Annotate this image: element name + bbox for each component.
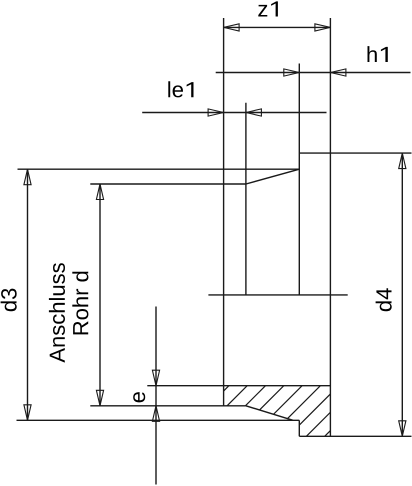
wire h1 dimension line	[216, 72, 411, 74]
label Rohr d	[72, 272, 88, 335]
wire z1 dimension line	[224, 26, 331, 28]
wire collar face edge / h1 extension (V3)	[298, 64, 300, 295]
wire left face extension z1 (V1)	[223, 18, 225, 406]
arrow d4 top	[399, 153, 406, 169]
wire insertion depth edge / le1 extension (V4)	[245, 103, 247, 295]
arrow e bottom	[152, 406, 159, 422]
wire d3 dimension line	[27, 169, 29, 420]
arrow d3 bottom	[24, 405, 31, 421]
wire bottom chamfer	[246, 406, 293, 421]
arrow Rohr d bottom	[96, 390, 103, 406]
label z1	[258, 1, 278, 16]
label le1	[168, 81, 193, 97]
wire d4 top extension / collar top outline	[299, 152, 411, 154]
wire bore line / e extension	[147, 385, 330, 387]
wire e dimension line	[155, 307, 157, 485]
arrow d4 bottom	[399, 421, 406, 437]
wire le1 dimension line	[142, 112, 326, 114]
arrow h1 left	[284, 69, 300, 76]
wire d3 bottom extension line	[17, 419, 300, 421]
arrow e top	[152, 370, 159, 386]
wire right face extension z1 (V2)	[329, 18, 331, 436]
wire top chamfer	[246, 169, 299, 184]
label h1	[368, 46, 388, 62]
wire pipe OD bottom outline / Rohr d extension	[90, 405, 246, 407]
arrow Rohr d top	[96, 184, 103, 200]
wire d3 top extension line	[18, 168, 300, 170]
arrow d3 top	[24, 169, 31, 185]
arrow z1 left	[224, 24, 240, 31]
label Anschluss	[49, 263, 65, 362]
wire d4 dimension line	[401, 153, 403, 436]
arrow z1 right	[315, 24, 331, 31]
label d3	[1, 289, 17, 312]
wire centerline	[208, 294, 347, 296]
arrow le1 right	[246, 109, 262, 116]
label d4	[376, 288, 392, 311]
label e	[133, 392, 145, 402]
wire Rohr d dimension line	[99, 184, 101, 406]
wire d4 bottom extension / collar bottom outline	[299, 435, 411, 437]
arrow le1 left	[208, 109, 224, 116]
section hatching	[178, 386, 375, 437]
wire pipe OD top outline / Rohr d extension	[90, 183, 246, 185]
arrow h1 right	[330, 69, 346, 76]
wire collar step edge	[298, 420, 300, 436]
